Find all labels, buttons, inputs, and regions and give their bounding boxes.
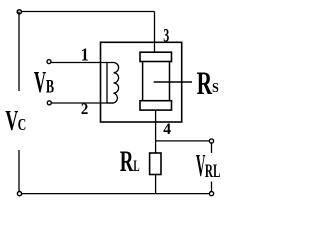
label VB — [34, 65, 54, 99]
label Rs — [197, 66, 219, 102]
component box outline (relay) — [101, 42, 182, 122]
wire pin 4 vertical from Rs bottom cap down to RL — [155, 110, 157, 153]
svg-text:S: S — [212, 81, 219, 96]
svg-text:B: B — [46, 78, 54, 98]
inductor coil arcs — [107, 63, 119, 104]
wire pin 1 horizontal from VB top terminal to coil — [51, 62, 114, 64]
resistor RL body — [150, 153, 161, 175]
terminal VB bottom — [47, 101, 51, 105]
wire pin 3 vertical down to Rs top cap — [154, 12, 156, 53]
node bottom-left junction — [17, 192, 21, 196]
pointer line from Rs body to label — [154, 81, 192, 83]
terminal VRL bottom — [209, 192, 213, 196]
pin label 2 — [81, 100, 88, 118]
node top-left junction — [17, 10, 21, 14]
wire left vertical lower segment (Vc bottom) — [18, 150, 20, 192]
inductor coil spine — [106, 63, 108, 104]
wire from RL bottom to bottom rail — [155, 175, 157, 194]
wire bottom horizontal rail — [22, 193, 210, 195]
svg-text:C: C — [18, 115, 27, 134]
pin label 3 — [163, 26, 169, 47]
svg-text:R: R — [120, 145, 134, 178]
label RL — [120, 145, 140, 178]
svg-text:V: V — [34, 65, 46, 99]
svg-text:R: R — [197, 66, 213, 102]
svg-text:4: 4 — [163, 120, 171, 138]
svg-text:V: V — [5, 105, 18, 137]
resistor Rs top cap — [140, 52, 172, 61]
resistor Rs body — [143, 62, 170, 101]
svg-text:1: 1 — [81, 45, 89, 65]
resistor Rs bottom cap — [140, 101, 172, 110]
wire pin 2 horizontal from VB bottom terminal to coil — [51, 102, 113, 104]
wire left vertical upper segment (Vc top) — [18, 12, 20, 92]
terminal VB top — [47, 60, 51, 64]
svg-text:2: 2 — [81, 100, 88, 118]
wire VRL branch upper stub — [211, 143, 213, 153]
pin label 1 — [81, 45, 89, 65]
label VRL — [196, 148, 221, 183]
svg-text:3: 3 — [163, 26, 169, 47]
svg-text:L: L — [133, 158, 139, 175]
label Vc — [5, 105, 26, 137]
wire top horizontal from node to pin 3 corner — [21, 11, 155, 13]
wire VRL branch lower stub — [211, 182, 213, 192]
svg-text:RL: RL — [205, 162, 221, 182]
pin label 4 — [163, 120, 171, 138]
wire horizontal from pin 4 node to VRL top terminal — [156, 140, 210, 142]
terminal VRL top — [209, 139, 213, 143]
